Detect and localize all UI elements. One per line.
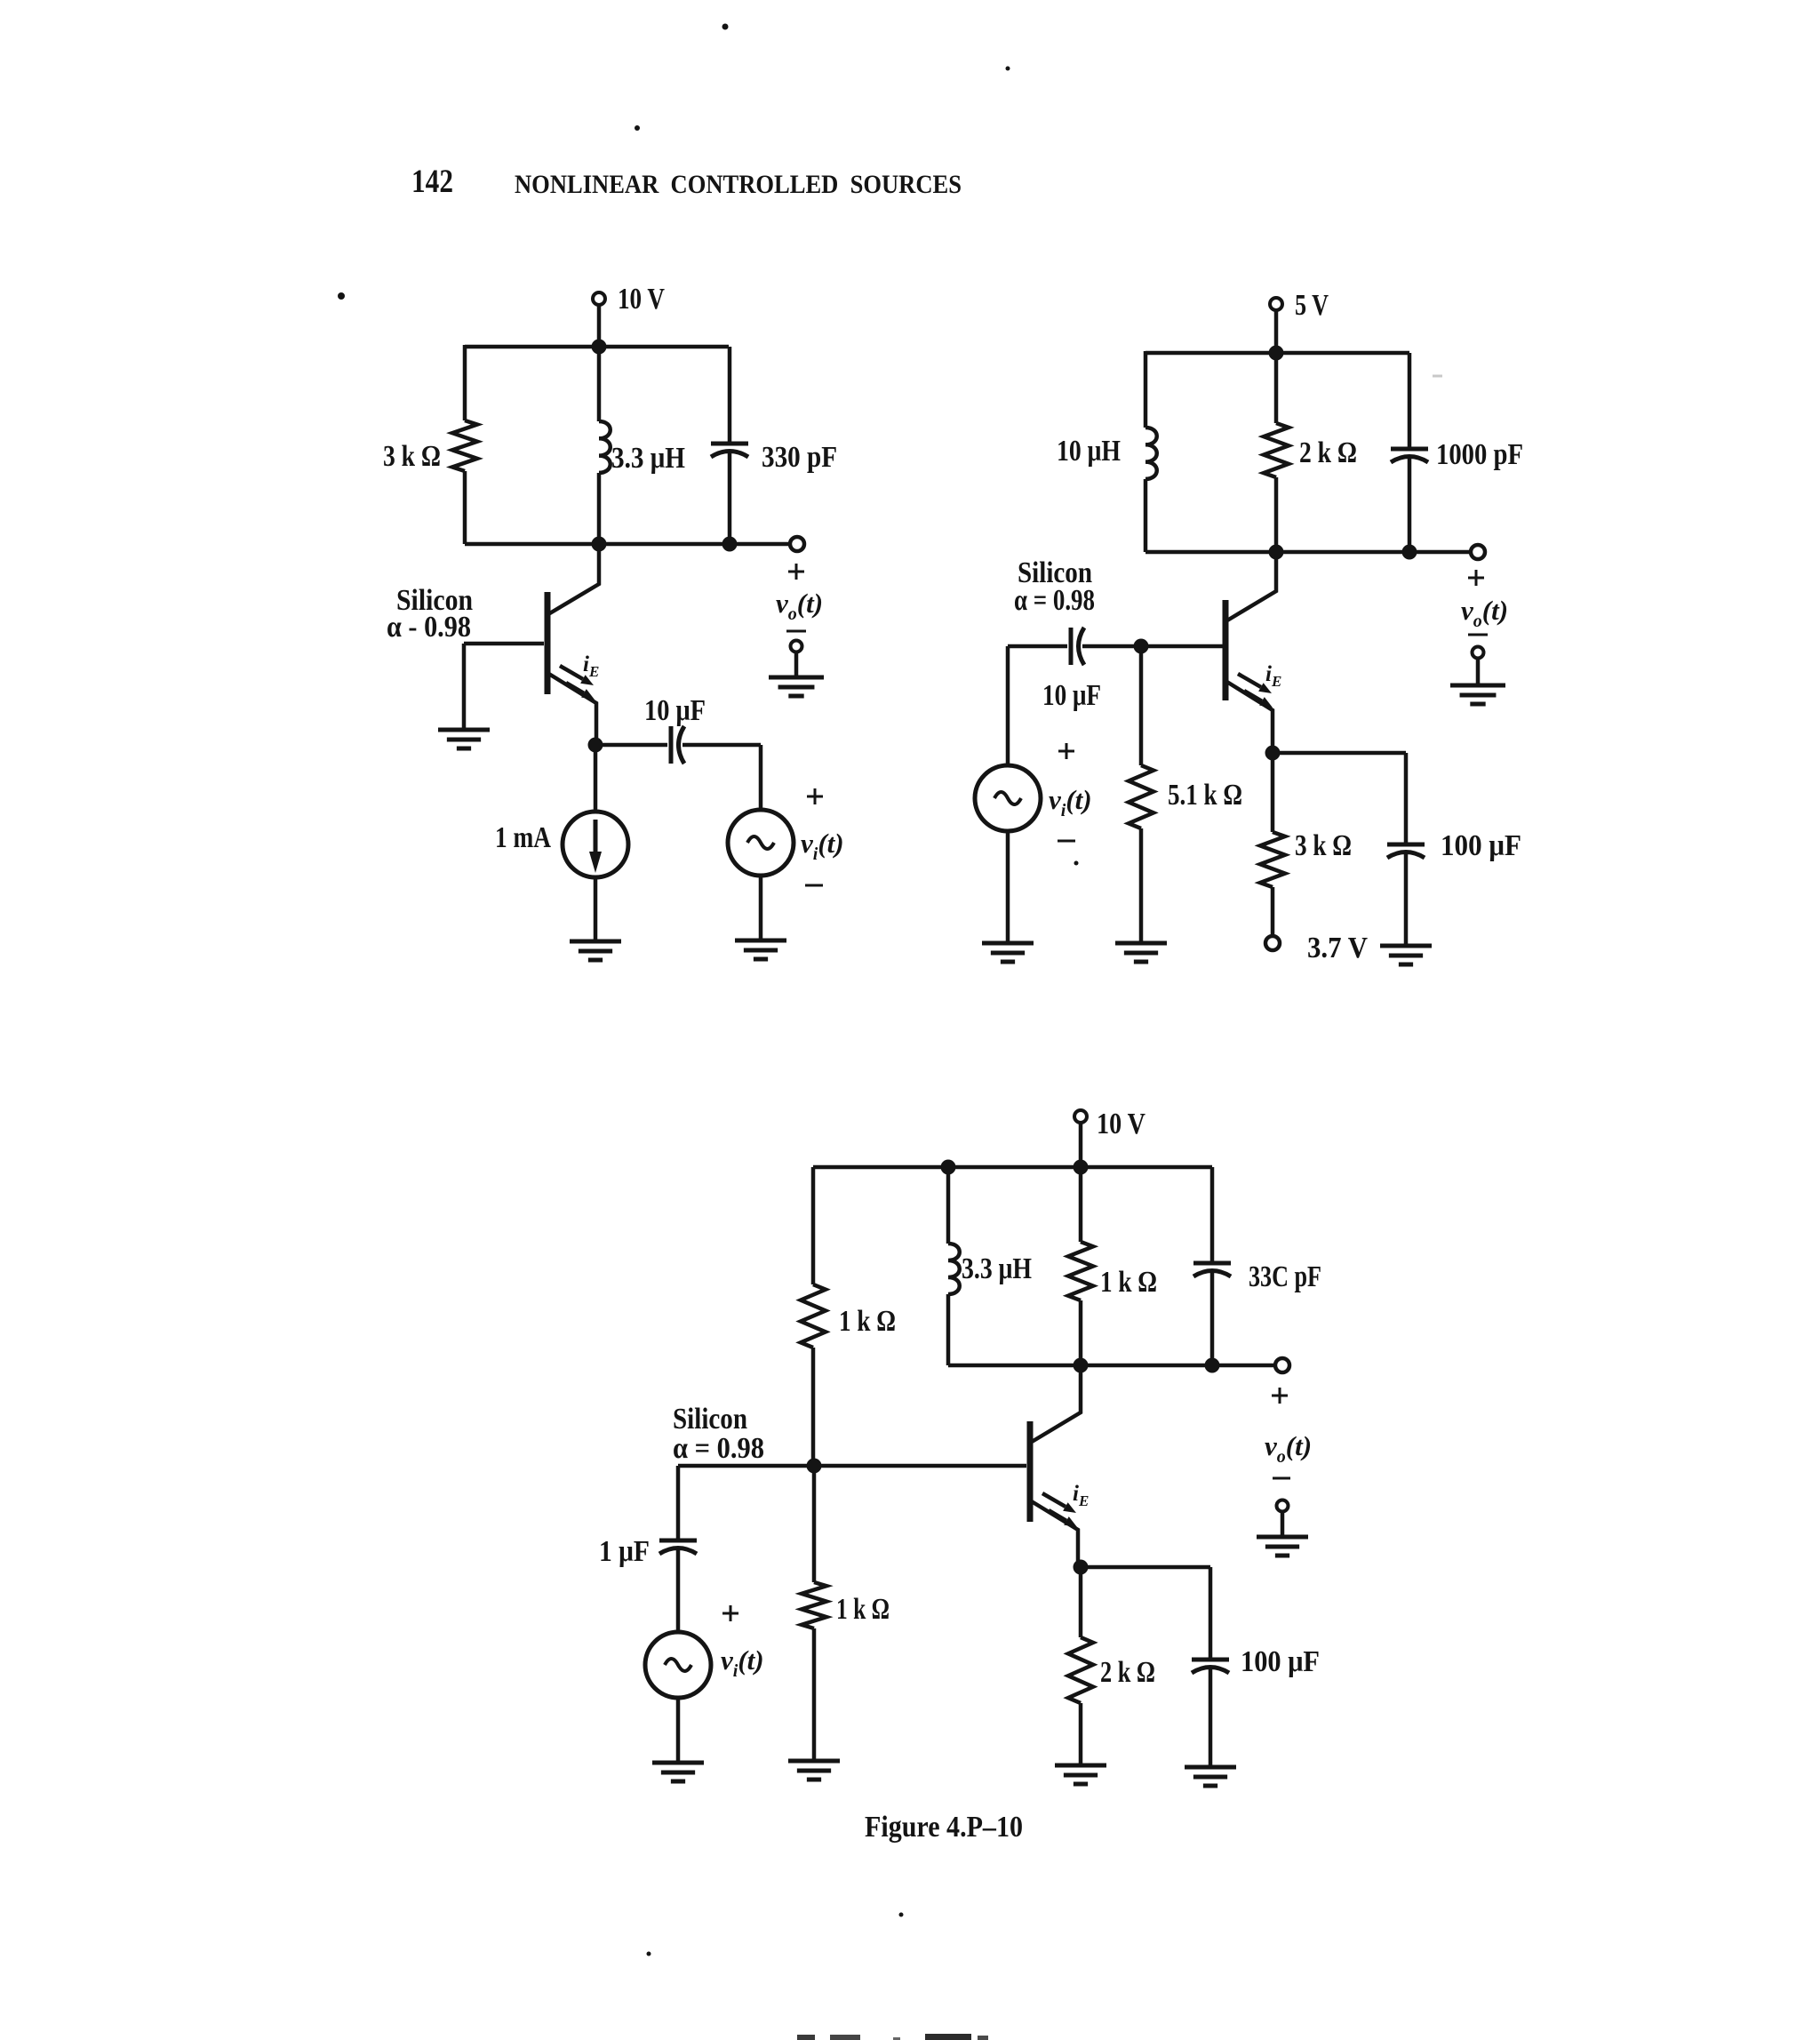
ground symbol capacitor (circuit 3): [1185, 1767, 1236, 1786]
wire down to capacitor (circuit 3): [1209, 1567, 1213, 1660]
inductor L2 10 uH (circuit 2): [1145, 428, 1157, 479]
junction dot top rail (circuit 2): [1269, 346, 1284, 361]
svg-text:2 k Ω: 2 k Ω: [1100, 1656, 1155, 1689]
resistor R4 3 kOhm (circuit 2): [1260, 832, 1285, 887]
wire bottom rail to output (circuit 2): [1145, 550, 1471, 555]
resistor R6 1 kOhm mid (circuit 3): [1068, 1242, 1093, 1300]
svg-text:330 pF: 330 pF: [762, 441, 837, 474]
svg-text:vo(t): vo(t): [1461, 595, 1508, 631]
wire top rail (circuit 1): [465, 345, 729, 349]
emitter current arrow 2 (circuit 2): [1244, 691, 1273, 708]
wire left branch lower (circuit 1): [463, 471, 467, 544]
wire R4 to terminal (circuit 2): [1271, 887, 1275, 936]
label 1 kOhm left (circuit 3): [839, 1305, 896, 1338]
output terminal vo (circuit 2): [1471, 545, 1485, 559]
svg-text:10 μF: 10 μF: [1042, 679, 1101, 712]
wire capacitor to source (circuit 1): [682, 743, 761, 748]
svg-text:142: 142: [411, 164, 453, 200]
svg-text:α = 0.98: α = 0.98: [1014, 584, 1095, 617]
wire resistor branch upper (circuit 2): [1274, 353, 1279, 423]
label vo(t) (circuit 2): [1461, 595, 1508, 631]
ground symbol base (circuit 1): [438, 730, 490, 748]
junction dot second rail right (circuit 3): [1205, 1358, 1220, 1373]
label + vi (circuit 2): [1058, 743, 1074, 759]
label 3 kOhm (circuit 2): [1295, 829, 1352, 862]
label 330 pF (circuit 3): [1249, 1260, 1321, 1293]
junction dot emitter node (circuit 3): [1074, 1560, 1089, 1575]
supply terminal 5 V (circuit 2): [1270, 289, 1329, 353]
label 100 uF (circuit 2): [1441, 829, 1521, 862]
label iE (circuit 2): [1265, 662, 1281, 690]
resistor R3 5.1 kOhm (circuit 2): [1129, 765, 1153, 828]
svg-text:1 μF: 1 μF: [599, 1535, 650, 1568]
wire base (circuit 2): [1082, 644, 1224, 649]
wire base (circuit 1): [464, 642, 544, 646]
label vi(t) (circuit 1): [801, 828, 844, 864]
resistor R2 2 kOhm (circuit 2): [1264, 423, 1289, 477]
wire capacitor branch upper (circuit 3): [1210, 1167, 1215, 1263]
figure caption: [865, 1811, 1023, 1844]
wire input down to capacitor (circuit 3): [676, 1466, 681, 1540]
svg-text:NONLINEAR CONTROLLED SOURCES: NONLINEAR CONTROLLED SOURCES: [515, 170, 962, 199]
page header number 142: [411, 164, 453, 200]
wire bottom rail to output (circuit 1): [465, 542, 790, 547]
wire vi to ground (circuit 3): [676, 1698, 681, 1763]
label 5.1 kOhm: [1168, 779, 1242, 812]
supply terminal 10 V (circuit 1): [593, 283, 665, 347]
ground terminal at output (circuit 1): [791, 641, 802, 678]
svg-text:3.3 μH: 3.3 μH: [962, 1252, 1032, 1285]
transistor Q1 emitter (circuit 1): [547, 673, 596, 745]
label minus vi (circuit 1): [805, 884, 823, 887]
wire vi to ground (circuit 2): [1006, 831, 1010, 943]
emitter current arrow 1 (circuit 1): [560, 666, 594, 685]
svg-text:vi(t): vi(t): [1049, 784, 1092, 820]
wire left branch upper (circuit 3): [811, 1167, 816, 1284]
transistor Q2 emitter (circuit 2): [1225, 681, 1273, 753]
junction dot top rail left (circuit 3): [941, 1160, 956, 1175]
terminal 3.7 V (circuit 2): [1265, 936, 1280, 950]
resistor R1 3 kOhm (circuit 1): [452, 420, 477, 471]
ground symbol vi (circuit 1): [735, 940, 786, 959]
wire bias resistor to ground (circuit 3): [812, 1628, 817, 1761]
wire capacitor branch upper (circuit 2): [1408, 353, 1412, 449]
junction dot bottom rail left (circuit 2): [1269, 545, 1284, 560]
resistor R7 1 kOhm bias (circuit 3): [802, 1582, 826, 1628]
svg-text:vi(t): vi(t): [721, 1644, 764, 1681]
label Silicon (circuit 2): [1018, 556, 1092, 589]
capacitor C5 100 uF (circuit 2): [1387, 844, 1425, 858]
ground symbol capacitor (circuit 2): [1380, 946, 1432, 964]
svg-text:3.3 μH: 3.3 μH: [611, 442, 685, 475]
label iE (circuit 1): [583, 652, 599, 680]
wire inductor branch upper (circuit 2): [1144, 351, 1148, 428]
label 330 pF: [762, 441, 837, 474]
transistor Q1 collector wire (circuit 1): [548, 544, 599, 614]
label minus output (circuit 3): [1273, 1477, 1290, 1480]
ground symbol vi (circuit 2): [982, 943, 1034, 962]
capacitor C1 330 pF (circuit 1): [711, 444, 748, 457]
emitter current arrow 2 (circuit 3): [1049, 1510, 1077, 1527]
wire R3 to ground (circuit 2): [1139, 828, 1144, 943]
label 3.7 V: [1307, 932, 1368, 964]
label vo(t) (circuit 3): [1265, 1430, 1312, 1467]
junction dot bottom rail right (circuit 2): [1402, 545, 1417, 560]
wire left branch upper (circuit 1): [463, 345, 467, 420]
page header title NONLINEAR CONTROLLED SOURCES: [515, 170, 962, 199]
label vo(t) (circuit 1): [776, 588, 823, 624]
source vi sine (circuit 2): [975, 765, 1041, 831]
label iE (circuit 3): [1073, 1482, 1089, 1509]
label minus output (circuit 2): [1468, 634, 1488, 636]
emitter current arrow 1 (circuit 2): [1238, 674, 1272, 693]
svg-text:vo(t): vo(t): [1265, 1430, 1312, 1467]
wire capacitor branch lower (circuit 3): [1210, 1273, 1215, 1365]
emitter current arrow 1 (circuit 3): [1042, 1493, 1076, 1513]
wire left branch lower (circuit 3): [811, 1348, 816, 1466]
wire inductor branch lower (circuit 3): [946, 1294, 951, 1365]
label 1 mA: [495, 821, 551, 854]
ground symbol output (circuit 1): [769, 677, 824, 696]
svg-text:10 μF: 10 μF: [644, 694, 706, 727]
svg-text:5 V: 5 V: [1295, 289, 1329, 322]
ground symbol R3 (circuit 2): [1115, 943, 1167, 962]
label 1 kOhm mid (circuit 3): [1100, 1266, 1157, 1299]
capacitor C4 10 uF (circuit 2): [1071, 628, 1084, 665]
junction dot base (circuit 3): [807, 1459, 822, 1474]
resistor R8 2 kOhm (circuit 3): [1068, 1637, 1093, 1703]
label Silicon (circuit 3): [673, 1403, 747, 1436]
svg-text:3 k Ω: 3 k Ω: [1295, 829, 1352, 862]
label 2 kOhm: [1299, 436, 1357, 469]
ground symbol bias resistor (circuit 3): [788, 1761, 840, 1780]
transistor Q1 base bar (circuit 1): [545, 592, 551, 694]
capacitor C6 330 pF (circuit 3): [1193, 1263, 1231, 1276]
label vi(t) (circuit 2): [1049, 784, 1092, 820]
svg-text:10 V: 10 V: [618, 283, 665, 316]
scan speck dots: [338, 24, 1442, 1956]
label vi(t) (circuit 3): [721, 1644, 764, 1681]
wire down to vi source (circuit 1): [759, 745, 763, 810]
label 2 kOhm (circuit 3): [1100, 1656, 1155, 1689]
junction dot second rail mid (circuit 3): [1074, 1358, 1089, 1373]
capacitor C8 100 uF (circuit 3): [1192, 1660, 1229, 1673]
wire bias resistor upper (circuit 3): [812, 1466, 817, 1582]
wire current source to ground (circuit 1): [594, 877, 598, 941]
supply terminal 10 V (circuit 3): [1074, 1108, 1145, 1167]
wire capacitor branch lower (circuit 1): [728, 453, 732, 544]
junction dot bottom rail right (circuit 1): [722, 537, 738, 552]
svg-text:33C pF: 33C pF: [1249, 1260, 1321, 1293]
label Silicon (circuit 1): [396, 584, 473, 617]
svg-text:10 μH: 10 μH: [1057, 435, 1121, 468]
label alpha 0.98 (circuit 1): [387, 611, 471, 644]
transistor Q3 collector wire (circuit 3): [1032, 1365, 1081, 1442]
label 3 kOhm: [383, 440, 441, 473]
wire inductor branch lower (circuit 1): [597, 473, 602, 544]
svg-text:Silicon: Silicon: [673, 1403, 747, 1436]
resistor R5 1 kOhm left (circuit 3): [801, 1284, 826, 1348]
wire vi source to ground (circuit 1): [759, 876, 763, 940]
transistor Q3 base bar (circuit 3): [1027, 1421, 1034, 1522]
label + vi (circuit 1): [807, 788, 823, 804]
wire second rail to output (circuit 3): [948, 1364, 1275, 1368]
label alpha 0.98 (circuit 2): [1014, 584, 1095, 617]
junction dot top rail right (circuit 3): [1074, 1160, 1089, 1175]
label 10 uF (circuit 2): [1042, 679, 1101, 712]
junction dot bottom rail left (circuit 1): [592, 537, 607, 552]
label 3.3 uH (circuit 3): [962, 1252, 1032, 1285]
label 1 kOhm bias (circuit 3): [836, 1593, 890, 1626]
label + output (circuit 1): [788, 564, 804, 580]
wire emitter node down (circuit 1): [594, 745, 598, 812]
wire capacitor to vi (circuit 3): [676, 1550, 681, 1632]
inductor L1 3.3 uH (circuit 1): [599, 421, 611, 473]
output terminal vo (circuit 1): [790, 537, 804, 551]
svg-text:α = 0.98: α = 0.98: [673, 1432, 764, 1465]
junction dot base node (circuit 2): [1134, 639, 1149, 654]
svg-text:vo(t): vo(t): [776, 588, 823, 624]
svg-text:3.7 V: 3.7 V: [1307, 932, 1368, 964]
transistor Q3 emitter (circuit 3): [1030, 1500, 1078, 1567]
label 3.3 uH: [611, 442, 685, 475]
capacitor C7 1 uF (circuit 3): [659, 1540, 697, 1554]
current source 1 mA (circuit 1): [563, 812, 628, 877]
wire R8 to ground (circuit 3): [1079, 1703, 1083, 1765]
ground symbol output (circuit 2): [1450, 685, 1505, 704]
wire capacitor to ground (circuit 2): [1404, 854, 1409, 946]
wire emitter node down (circuit 2): [1271, 753, 1275, 832]
source vi sine (circuit 1): [728, 810, 794, 876]
label + output (circuit 2): [1468, 570, 1484, 586]
ground symbol output (circuit 3): [1257, 1537, 1308, 1556]
wire top rail (circuit 2): [1145, 351, 1409, 356]
svg-text:100 μF: 100 μF: [1441, 829, 1521, 862]
wire inductor branch upper (circuit 3): [946, 1167, 951, 1244]
junction dot emitter node (circuit 2): [1265, 746, 1281, 761]
wire vi to capacitor (circuit 2): [1008, 644, 1067, 649]
label 10 uF (circuit 1): [644, 694, 706, 727]
svg-text:Figure 4.P–10: Figure 4.P–10: [865, 1811, 1023, 1844]
svg-text:100 μF: 100 μF: [1241, 1645, 1320, 1678]
label alpha 0.98 (circuit 3): [673, 1432, 764, 1465]
svg-text:10 V: 10 V: [1097, 1108, 1145, 1140]
wire emitter node to capacitor (circuit 1): [595, 743, 667, 748]
label 100 uF (circuit 3): [1241, 1645, 1320, 1678]
svg-text:vi(t): vi(t): [801, 828, 844, 864]
wire capacitor branch lower (circuit 2): [1408, 459, 1412, 552]
ground symbol R8 (circuit 3): [1055, 1765, 1106, 1784]
junction dot emitter node (circuit 1): [588, 738, 603, 753]
wire down to capacitor (circuit 2): [1404, 753, 1409, 844]
capacitor C3 1000 pF (circuit 2): [1391, 449, 1428, 462]
label minus vi (circuit 2): [1058, 840, 1075, 843]
bottom edge cut-off text fragments: [797, 2034, 988, 2040]
svg-text:1 k Ω: 1 k Ω: [836, 1593, 890, 1626]
inductor L3 3.3 uH (circuit 3): [948, 1244, 960, 1294]
transistor Q2 base bar (circuit 2): [1223, 600, 1229, 700]
emitter current arrow 2 (circuit 1): [566, 683, 595, 700]
svg-text:1 mA: 1 mA: [495, 821, 551, 854]
wire emitter node right (circuit 3): [1081, 1565, 1210, 1570]
svg-text:1 k Ω: 1 k Ω: [1100, 1266, 1157, 1299]
label + output (circuit 3): [1272, 1388, 1288, 1404]
wire capacitor branch upper (circuit 1): [728, 347, 732, 444]
wire emitter node down (circuit 3): [1079, 1567, 1083, 1637]
ground symbol current source (circuit 1): [570, 941, 621, 960]
ground terminal at output (circuit 3): [1277, 1500, 1289, 1538]
wire capacitor to ground (circuit 3): [1209, 1669, 1213, 1767]
junction dot top rail (circuit 1): [592, 340, 607, 355]
wire top rail (circuit 3): [813, 1165, 1212, 1170]
wire vi down (circuit 2): [1006, 646, 1010, 765]
transistor Q2 collector wire (circuit 2): [1227, 552, 1276, 620]
svg-text:5.1 k Ω: 5.1 k Ω: [1168, 779, 1242, 812]
label 1 uF (circuit 3): [599, 1535, 650, 1568]
svg-text:3 k Ω: 3 k Ω: [383, 440, 441, 473]
wire base down (circuit 1): [462, 644, 467, 730]
capacitor C2 10 uF (circuit 1): [671, 726, 684, 764]
source vi sine (circuit 3): [645, 1632, 711, 1698]
ground terminal at output (circuit 2): [1473, 647, 1484, 684]
wire inductor branch lower (circuit 2): [1144, 479, 1148, 552]
wire resistor branch lower (circuit 2): [1274, 477, 1279, 552]
wire resistor branch lower (circuit 3): [1079, 1300, 1083, 1365]
wire inductor branch upper (circuit 1): [597, 347, 602, 421]
wire base (circuit 3): [678, 1464, 1026, 1468]
output terminal vo (circuit 3): [1275, 1358, 1289, 1372]
wire resistor branch upper (circuit 3): [1079, 1167, 1083, 1242]
wire emitter node right (circuit 2): [1273, 751, 1406, 756]
label minus output (circuit 1): [786, 630, 806, 633]
label 1000 pF: [1436, 438, 1523, 471]
label + vi (circuit 3): [722, 1605, 738, 1621]
label 10 uH: [1057, 435, 1121, 468]
svg-text:1 k Ω: 1 k Ω: [839, 1305, 896, 1338]
wire base node down to R (circuit 2): [1139, 646, 1144, 765]
svg-text:2 k Ω: 2 k Ω: [1299, 436, 1357, 469]
svg-text:1000 pF: 1000 pF: [1436, 438, 1523, 471]
ground symbol vi (circuit 3): [652, 1763, 704, 1781]
svg-text:α - 0.98: α - 0.98: [387, 611, 471, 644]
